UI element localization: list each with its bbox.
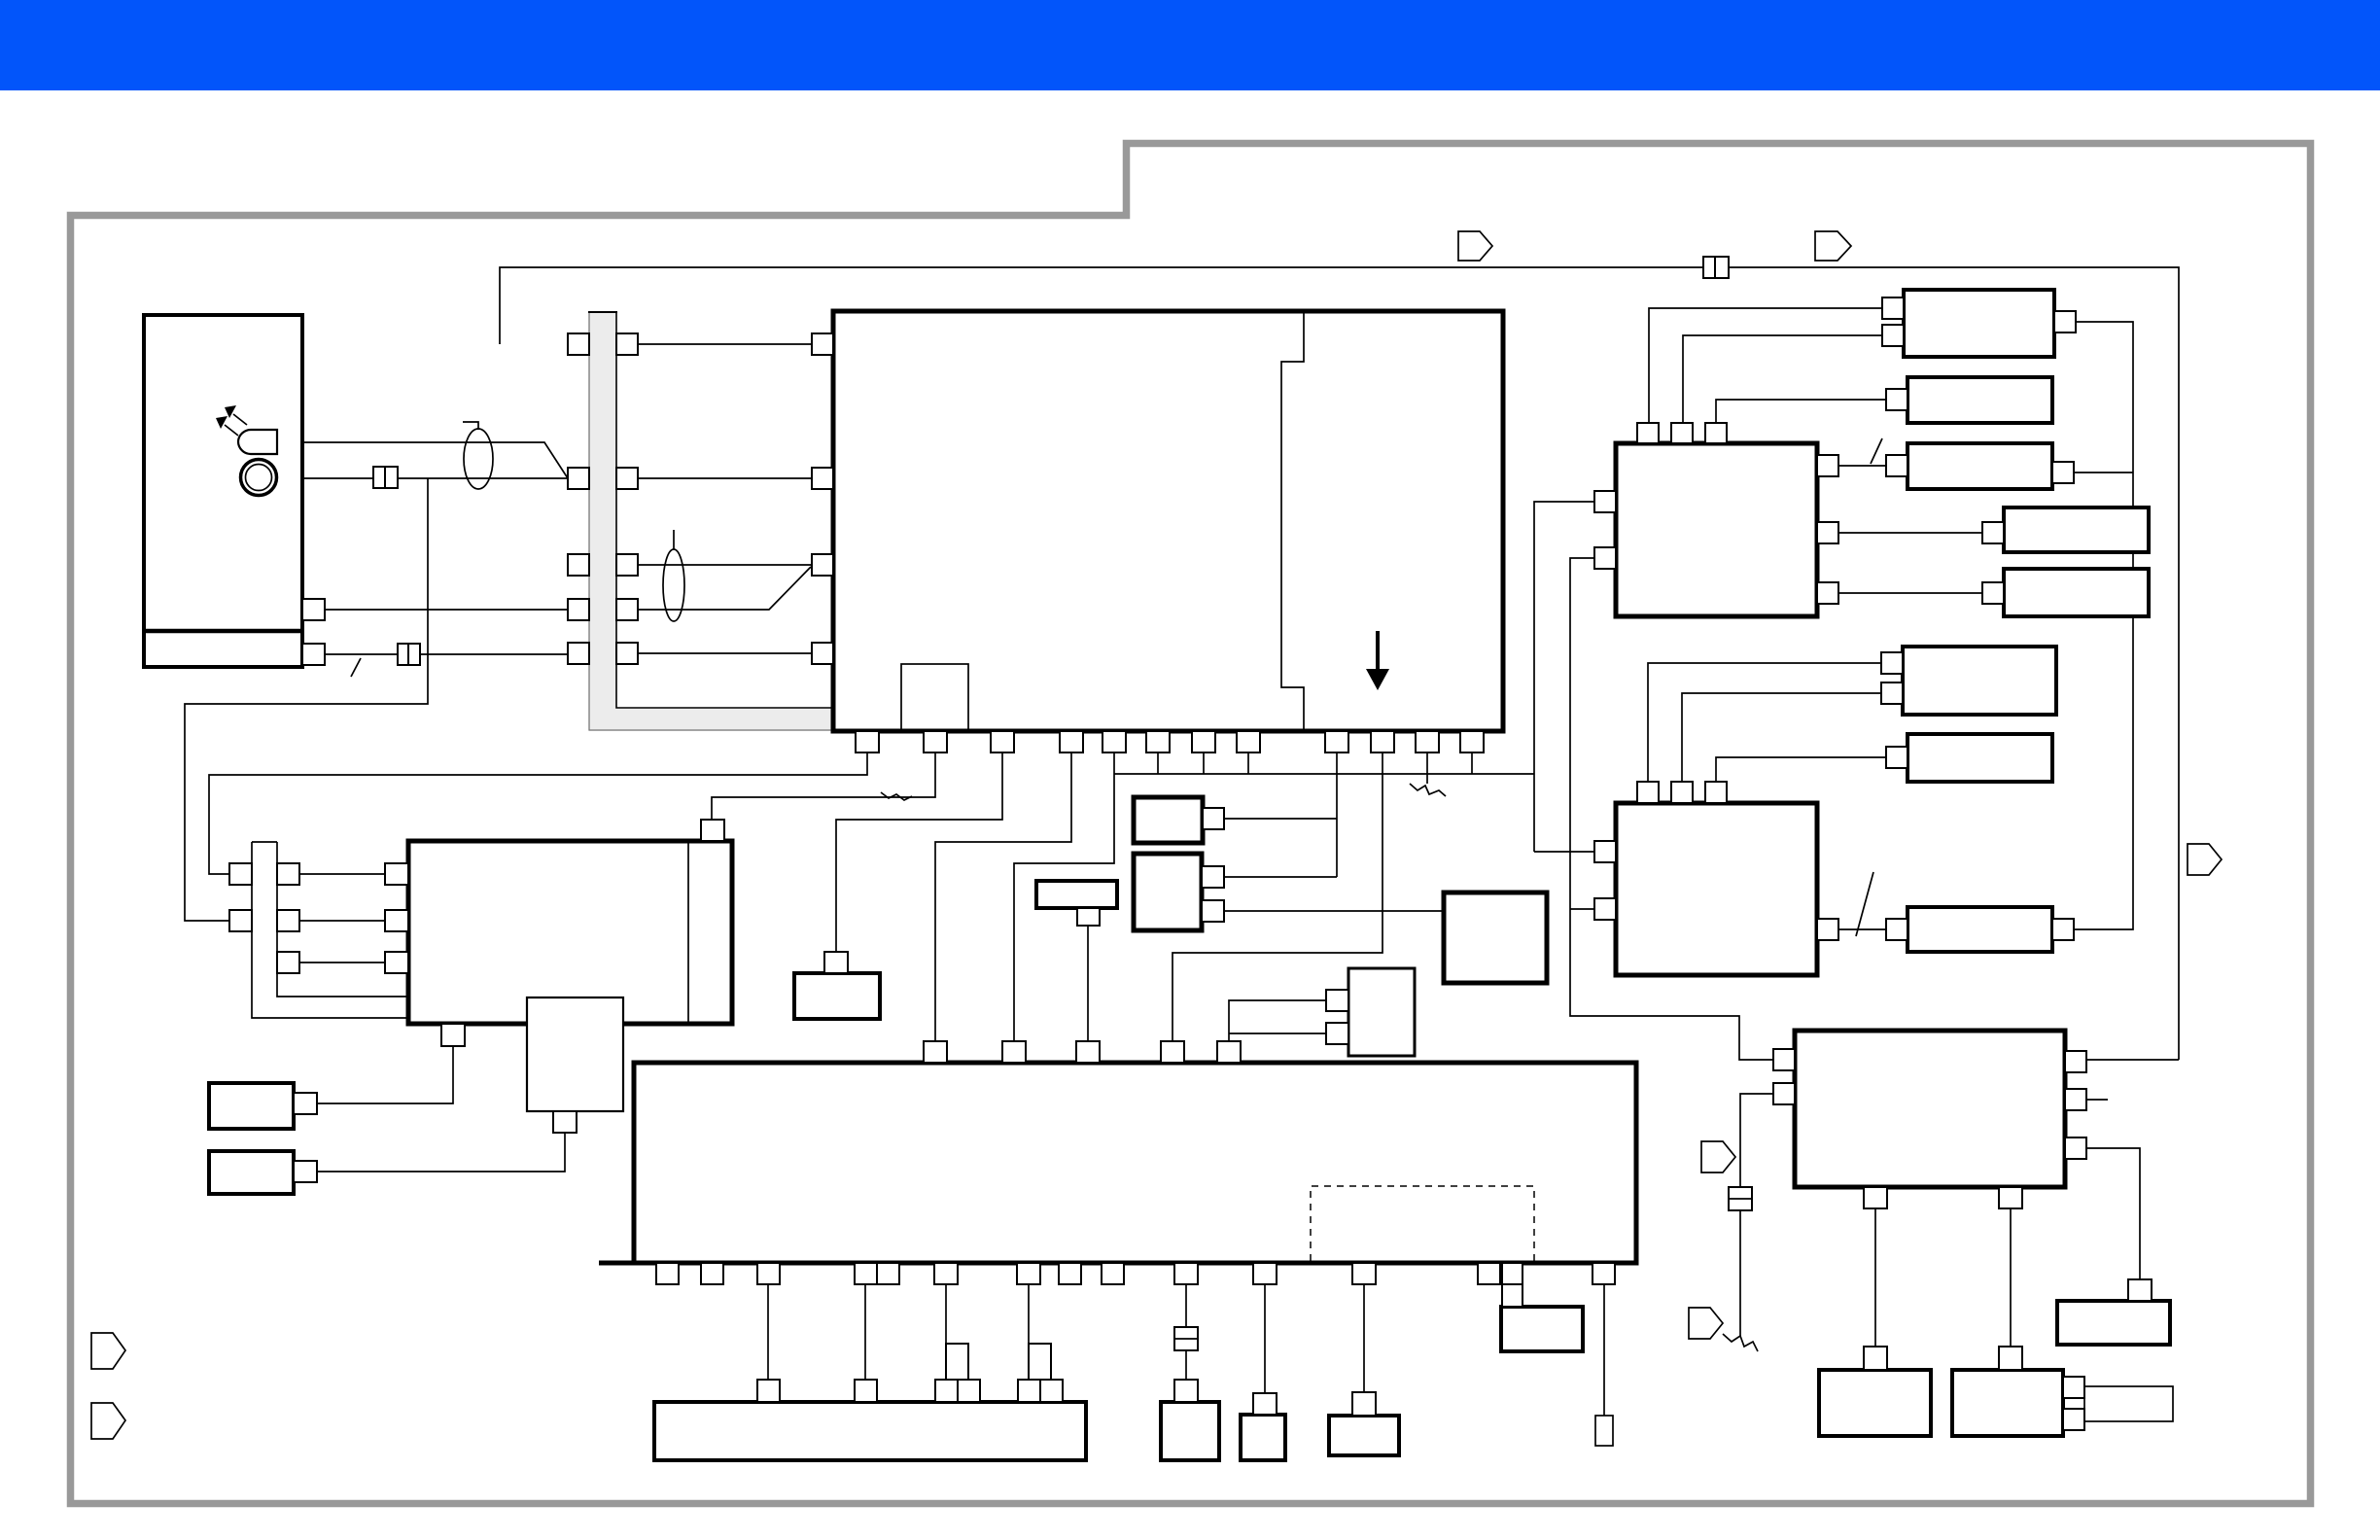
wire: cable row3 feed (299, 962, 385, 963)
pentagon flag P4b (1701, 1141, 1735, 1172)
wire: main pin p4 to bottom block pin via x962 (935, 752, 1071, 1044)
wire: bus row4 to main block pin3 via diagonal (638, 567, 811, 610)
box B5 (thin tall) (527, 997, 623, 1111)
wire: R3 right pin1 to top net vertical (2086, 1059, 2179, 1061)
left block right pins (302, 599, 325, 620)
box L2 (1161, 1402, 1219, 1460)
wire: bottom bus y795 joining p6 p7 p8 p12 (1114, 773, 1534, 775)
bus row squares (568, 333, 589, 355)
T3 right pin (2052, 462, 2074, 483)
mid block top pin (701, 820, 724, 841)
box RB7 (1907, 907, 2052, 952)
box LB1 (209, 1083, 294, 1129)
B5 bottom pin (553, 1111, 577, 1133)
Rb1 top pin (1864, 1347, 1887, 1370)
slash break near T3 (1871, 438, 1882, 464)
block: main IC (center) (833, 311, 1503, 731)
fuse rect under b14 (1595, 1416, 1613, 1446)
wire: p9 vertical with box A and box B pin1 taps (1336, 752, 1338, 877)
wire: box W1 pin down to bottom block pin (1087, 926, 1089, 1044)
cap symbol on b10 wire (1174, 1327, 1198, 1350)
wire: bus row3 to main block pin3 (638, 564, 812, 566)
wire: cable row1 feed (299, 873, 385, 875)
box Rb3 (2057, 1301, 2170, 1345)
B6 top pin (824, 952, 848, 973)
box A right pin (1203, 808, 1224, 829)
wire: microphone to bus row2 (276, 477, 568, 479)
R2 top pins (1637, 782, 1659, 803)
RB7 left pin (1886, 919, 1907, 940)
wire: R2 right pin to box RB7 (1838, 928, 1886, 930)
LB2 right pin (294, 1161, 317, 1182)
wire: box LB2 to box B5 bottom pin (317, 1133, 565, 1172)
R2 left pins (1594, 841, 1616, 862)
cap symbol on R3 left pin2 wire (1729, 1187, 1752, 1210)
block: R1 upper-right IC (1616, 443, 1817, 616)
block: R3 lower-right IC (1795, 1031, 2065, 1187)
wire: LED output to bus row2 (with diagonal) (277, 442, 568, 478)
slash break near RB7 (1856, 872, 1873, 936)
zigzag break on p2 wire (881, 792, 912, 800)
box B (center small) (1134, 854, 1202, 930)
R1 top pins (1637, 423, 1659, 443)
L2 top pin (1174, 1380, 1198, 1402)
box B right pins (1202, 866, 1224, 888)
box W1 bottom pin (1077, 908, 1100, 926)
box T2 (1907, 377, 2052, 423)
pentagon flag P1 (1458, 231, 1492, 261)
wire: main pin p1 down-left to cable row1 (209, 752, 867, 874)
RB6 left pin (1886, 747, 1907, 768)
box L4 (1329, 1416, 1399, 1455)
wire: p10 down to bottom block pin via y980 (1172, 752, 1382, 1044)
wire: top long net from bus row1 up and across to right side (500, 267, 2179, 1060)
divider of left block (144, 629, 302, 634)
wire: cable row2 feed (299, 920, 385, 922)
box M1 (1444, 892, 1547, 983)
dashed sub-area inside bottom IC (1311, 1186, 1534, 1261)
pentagon flag P5 (91, 1333, 125, 1369)
pentagon flag P6 (91, 1403, 125, 1439)
M2 left pins (1326, 990, 1348, 1011)
box T3 (1907, 443, 2052, 489)
box L1 (long bottom connector) (654, 1402, 1086, 1460)
T1 left pins (1882, 297, 1904, 319)
box T5 (2004, 569, 2149, 616)
blue header bar (0, 0, 2380, 90)
wire: p11 stub ending in break (1426, 752, 1428, 784)
block: mid-left IC (408, 841, 732, 1024)
extended bottom rail of bottom IC (599, 1261, 1636, 1266)
slash break on lower-left wire (351, 658, 361, 677)
ribbon cable bend into mid block (252, 842, 408, 1018)
wire: left block lower pin to bus row5 (325, 653, 568, 655)
connector C1 on mic wire (373, 467, 386, 488)
bus top cap (588, 311, 617, 313)
bottom IC bottom pins (656, 1263, 679, 1284)
wire: bottom pin b12 to box L4 (1363, 1284, 1365, 1392)
down arrow inside main IC (1376, 631, 1380, 672)
box T1 (1904, 290, 2054, 357)
thin box right of Rb2 (2084, 1386, 2173, 1421)
wire: R1 right pin1 to box T3 (1838, 465, 1886, 467)
L3 top pin (1253, 1393, 1277, 1415)
wire: box B pin2 to box M1 (1224, 910, 1444, 912)
zigzag break below R3 cap (1723, 1334, 1758, 1351)
R3 right pins (2065, 1051, 2086, 1072)
R2 right pin (1817, 919, 1838, 940)
LB1 right pin (294, 1093, 317, 1114)
L4 top pin (1352, 1392, 1376, 1416)
mid block bottom pin (441, 1024, 465, 1046)
pentagon flag P4 (1689, 1308, 1723, 1339)
block: camera/front panel (left) (144, 315, 302, 667)
wire: bottom block pins down to long connector box L1 (767, 1284, 769, 1380)
main IC bottom pins p1-p12 (856, 731, 879, 752)
cable row squares (229, 863, 252, 885)
wire: R3 right pin2 stub (2086, 1099, 2108, 1101)
bus inner outline (616, 313, 833, 708)
zigzag break at p11 (1410, 784, 1446, 796)
LED (remote emitter) (238, 430, 277, 454)
LED arrows (233, 414, 247, 425)
box L5 (1501, 1307, 1583, 1351)
wire: T1 right pin link down to T3 right pin and RB7 right pin (2074, 322, 2133, 929)
wire: p7 drop (1203, 752, 1205, 774)
wire: bus row1 to main block pin1 (638, 343, 812, 345)
box M2 (1348, 968, 1415, 1056)
box B6 (794, 973, 880, 1019)
wire: p8 drop (1247, 752, 1249, 774)
wire: R1 right pin3 to box T5 (1838, 592, 1982, 594)
R1 right pins (1817, 455, 1838, 476)
L1 top pins (757, 1380, 780, 1402)
box Rb1 (1819, 1370, 1931, 1436)
mid block left pins (385, 863, 408, 885)
wire: R3 right pin3 down to box Rb3 (2086, 1148, 2140, 1279)
box L3 (1241, 1415, 1285, 1460)
T3 left pin (1886, 455, 1907, 476)
box Rb2 (1952, 1370, 2063, 1436)
box W1 (wide short) (1036, 881, 1117, 908)
RB7 right pin (2052, 919, 2074, 940)
wire: R3 left pin2 down through cap ending in break (1740, 1094, 1773, 1187)
wire: R1 top pins from boxes T1 T2 (1649, 308, 1882, 423)
box RB5 (1903, 647, 2056, 715)
wire: bus row2 to main block pin2 (638, 477, 812, 479)
internal partition of mid-left IC (687, 841, 689, 1024)
wire: bus row5 to main block pin4 (638, 652, 812, 654)
oval filter O2 on bus rows (663, 549, 684, 621)
box A (center small) (1134, 797, 1203, 843)
wire: left block pin to bus row4 (325, 609, 568, 611)
R1 left pins (1594, 491, 1616, 512)
box RB6 (1907, 734, 2052, 782)
oval filter O1 on LED/mic wires (464, 429, 493, 489)
wire: main pin p5 to bottom block pin via x1043 (1014, 752, 1114, 1044)
microphone circle (241, 460, 277, 496)
connector C3 on top net (1703, 257, 1716, 278)
wire: mic branch down-left to cable row2 (185, 478, 428, 921)
wire: R2 top pins from boxes RB5 RB6 (1648, 663, 1881, 782)
wire: bottom pin b10 through cap to box L2 (1185, 1284, 1187, 1327)
Rb3 top pin (2128, 1279, 2152, 1301)
T5 left pin (1982, 582, 2004, 604)
pentagon flag P3 (2187, 844, 2222, 875)
box LB2 (209, 1151, 294, 1194)
R3 bottom pins (1864, 1187, 1887, 1208)
T1 right pin (2054, 311, 2076, 332)
R3 left pins (1773, 1049, 1795, 1070)
internal partition of main IC (1281, 311, 1304, 731)
pentagon flag P2 (1815, 231, 1851, 261)
Rb2 right pins (2063, 1377, 2084, 1398)
box T4 (2004, 507, 2149, 552)
L1 connector entry rects (946, 1344, 968, 1380)
main IC left pins (812, 333, 833, 355)
RB5 left pins (1881, 652, 1903, 674)
wire: R3 bottom pin2 to box Rb2 (2010, 1208, 2012, 1347)
bottom IC top pins (924, 1041, 947, 1063)
wire: mid block bottom pin to box LB1 (317, 1046, 453, 1103)
connector C2 on lower wire (398, 644, 409, 665)
wire: R3 bottom pin1 to box Rb1 (1874, 1208, 1876, 1347)
wire: p6 drop (1157, 752, 1159, 774)
internal sub-box of main IC (901, 664, 968, 731)
T2 left pin (1886, 389, 1907, 410)
wire: R1 left pin2 vertical to R2 left pin2 and down to R3 (1570, 558, 1773, 1060)
wire: main pin p3 left and down to box B6 (836, 752, 1002, 952)
T4 left pin (1982, 522, 2004, 543)
block: R2 mid-right IC (1616, 803, 1817, 975)
bus outer outline (589, 313, 833, 730)
wire: bottom pin b11 to box L3 (1264, 1284, 1266, 1393)
wire: bottom pin b14 down to fuse rect (1603, 1284, 1605, 1416)
wire: bottom block pin to M2 pins (1229, 1000, 1326, 1044)
Rb2 top pin (1999, 1347, 2022, 1370)
gray flat-cable bus (L-shape) (589, 312, 833, 731)
wire: main pin p2 left to mid block top pin (712, 752, 935, 820)
block: bottom long IC (634, 1063, 1636, 1263)
wire: p12 drop (1471, 752, 1473, 774)
wire: R1 right pin2 to box T4 (1838, 532, 1982, 534)
wire: vertical to R1/R2 left pin1 (1534, 502, 1594, 774)
